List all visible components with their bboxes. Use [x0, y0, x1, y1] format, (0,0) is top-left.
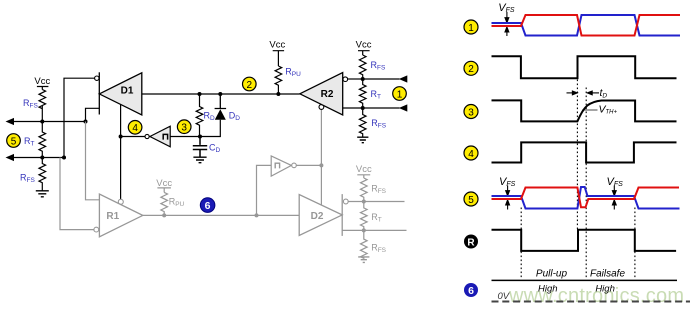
svg-text:1: 1 — [468, 23, 474, 34]
svg-text:3: 3 — [181, 123, 187, 134]
tD arrows — [567, 91, 600, 95]
node dot 4 — [119, 135, 123, 139]
resistor RFS (gray top) — [360, 178, 367, 202]
waveform row 2 circle — [464, 61, 478, 75]
waveform 6 trace — [492, 279, 678, 281]
node 6 circle (blue) — [200, 198, 215, 213]
ground (gray divider) — [358, 257, 369, 263]
svg-text:4: 4 — [132, 123, 138, 134]
node: enable junction (gray) — [319, 163, 323, 167]
node: RD branch — [198, 92, 202, 96]
node: RPU2 / line 6 — [162, 213, 166, 217]
receiver R2 — [300, 73, 343, 115]
bubble R2 input B — [343, 77, 348, 82]
dashed ground line — [492, 301, 691, 303]
wire node 2 line (R2 out to D1 in) — [142, 93, 300, 95]
waveform 2 trace — [492, 56, 677, 78]
waveform row R circle — [464, 235, 478, 249]
bubble D1 output B — [95, 76, 99, 80]
wire node4 to inverter out — [121, 136, 145, 138]
svg-text:RPU: RPU — [285, 67, 301, 79]
waveform 4 trace — [492, 142, 677, 162]
svg-text:2: 2 — [468, 64, 474, 75]
resistor RFS (right bottom) — [359, 108, 366, 137]
node: divider / bus A — [40, 120, 44, 124]
ground (left divider) — [36, 191, 49, 197]
svg-text:RFS: RFS — [371, 60, 386, 72]
ground (right divider) — [357, 137, 368, 143]
wire D2 output A to bus (gray) — [342, 229, 406, 231]
arrowhead bus B right — [399, 104, 408, 111]
wire node4 to R1 enable — [120, 137, 122, 200]
waveform row 1 circle — [464, 20, 478, 34]
svg-text:Failsafe: Failsafe — [590, 268, 625, 279]
resistor RPU2 (gray) — [161, 192, 168, 215]
VFS arrows row1 — [505, 12, 509, 36]
node: D1 output B / bus B — [62, 156, 66, 160]
VFS arrows row5 left — [506, 186, 510, 210]
waveform 5 blue trace — [492, 187, 680, 209]
svg-text:D2: D2 — [311, 211, 324, 222]
svg-text:2: 2 — [247, 80, 253, 91]
node: divider / bus B — [40, 156, 44, 160]
wire inverter in to node 3 — [170, 136, 200, 138]
Vcc symbol (right gray divider) — [356, 164, 372, 178]
diode DD — [200, 94, 226, 137]
node 3 circle — [177, 120, 191, 134]
svg-text:RT: RT — [24, 136, 35, 148]
driver D2 (gray) — [299, 195, 342, 236]
svg-text:5: 5 — [468, 195, 474, 206]
svg-text:RFS: RFS — [20, 173, 35, 185]
node: gray bus A — [362, 228, 366, 232]
wire D1 inverted output B to bus B — [64, 78, 95, 157]
svg-text:0V: 0V — [498, 291, 511, 302]
svg-text:5: 5 — [11, 136, 17, 147]
bus stub A right — [363, 78, 400, 80]
arrowhead bus A left — [6, 118, 15, 125]
ground (CD) — [193, 157, 206, 163]
wire D1 enable to node 4 — [120, 104, 122, 136]
VTH+ pointer dash — [582, 109, 598, 111]
bubble R1 enable — [118, 199, 123, 204]
wire line6 to inverter2 (gray) — [257, 165, 272, 215]
arrowhead bus B left — [6, 154, 15, 161]
dotted line C (threshold crossing) — [585, 88, 587, 279]
svg-text:6: 6 — [205, 200, 211, 212]
wire D1 output A to bus A — [86, 108, 100, 121]
wire inverter2 out to R2/D2 enables (gray) — [296, 110, 321, 206]
svg-text:R2: R2 — [321, 89, 334, 100]
svg-text:DD: DD — [229, 111, 241, 123]
wire bus B to R1 input (gray) — [60, 158, 94, 230]
Vcc symbol (right divider) — [356, 40, 372, 55]
node 5 circle — [7, 134, 21, 148]
waveform row 3 circle — [464, 105, 478, 119]
resistor RD — [196, 94, 203, 137]
node: gray bus B — [362, 200, 366, 204]
bubble R1 input B — [94, 227, 99, 232]
node 2 circle — [243, 77, 257, 91]
bubble R2 enable — [319, 105, 324, 110]
inverter U1 (delay buffer) — [145, 126, 170, 147]
dotted line A (pull-up start) — [520, 208, 522, 278]
svg-text:D1: D1 — [121, 86, 134, 97]
svg-text:Vcc: Vcc — [356, 164, 372, 175]
svg-text:High: High — [595, 283, 615, 294]
node: RPU branch — [276, 92, 280, 96]
svg-text:6: 6 — [468, 285, 474, 297]
svg-text:RT: RT — [371, 212, 382, 224]
wire bus A to R1 input (gray) — [86, 122, 100, 200]
svg-text:High: High — [538, 283, 558, 294]
waveform 5 red trace — [492, 188, 680, 208]
capacitor CD — [193, 137, 207, 157]
wire D2 output bar (gray) — [341, 194, 343, 236]
inverter U2 (gray) — [271, 156, 296, 176]
waveform 1 red trace — [492, 15, 681, 36]
wire D1 output bar — [98, 72, 100, 114]
svg-text:RPU: RPU — [169, 197, 185, 209]
svg-text:RFS: RFS — [371, 243, 386, 255]
wire node 6 line (R1 out to D2 in, gray) — [143, 214, 299, 216]
Vcc symbol (RPU) — [269, 40, 285, 66]
receiver R1 (gray) — [99, 194, 142, 237]
svg-text:Vcc: Vcc — [269, 40, 285, 51]
dotted line D (failsafe end) — [634, 208, 636, 278]
svg-text:R: R — [467, 237, 475, 248]
node: bus B right — [361, 106, 365, 110]
waveform row 5 circle — [464, 192, 478, 206]
svg-text:tD: tD — [600, 87, 608, 100]
wire R2 input B to bus — [348, 78, 363, 80]
node: DD branch — [218, 92, 222, 96]
node dot 3 — [198, 135, 202, 139]
VFS arrows row5 right — [612, 186, 616, 210]
svg-text:RFS: RFS — [371, 118, 386, 130]
svg-text:1: 1 — [397, 89, 403, 100]
svg-text:VTH+: VTH+ — [599, 104, 618, 116]
resistor RT (gray) — [360, 202, 367, 231]
Vcc symbol left (failsafe divider) — [34, 76, 50, 90]
bubble D2 output B (gray) — [343, 199, 348, 204]
svg-text:3: 3 — [468, 107, 474, 118]
svg-text:Vcc: Vcc — [34, 76, 50, 87]
bus line A (left, to cable) — [12, 121, 87, 123]
svg-text:RFS: RFS — [371, 184, 386, 196]
wire R2 input A to bus — [343, 107, 363, 109]
svg-text:RFS: RFS — [23, 98, 38, 110]
waveform row 4 circle — [464, 146, 478, 160]
resistor RFS (left top) — [39, 90, 46, 109]
svg-text:RT: RT — [371, 89, 382, 101]
bus line B (left, to cable) — [12, 157, 66, 159]
waveform 1 blue trace — [492, 15, 681, 36]
driver D1 — [99, 73, 142, 115]
resistor RT (right) — [359, 79, 366, 108]
waveform 3 trace (RC rise) — [492, 100, 677, 121]
wire RFS to bus A — [41, 106, 43, 122]
resistor RT (left) — [39, 122, 46, 158]
resistor RFS (left bottom) — [39, 158, 46, 191]
svg-text:R1: R1 — [106, 211, 119, 222]
Vcc symbol (RPU2 gray) — [156, 178, 172, 192]
arrowhead bus A right — [399, 75, 408, 82]
bus stub B right — [363, 107, 400, 109]
resistor RFS (gray bottom) — [360, 230, 367, 258]
waveform R trace — [492, 230, 677, 251]
svg-text:4: 4 — [468, 149, 474, 160]
svg-text:Pull-up: Pull-up — [536, 269, 568, 280]
node 1 circle — [393, 87, 407, 101]
svg-text:Vcc: Vcc — [356, 40, 372, 51]
resistor RPU — [275, 66, 282, 94]
node: inverter2 branch — [255, 213, 259, 217]
dotted line B (bus release) — [576, 80, 578, 230]
waveform row 6 circle (blue) — [464, 283, 478, 297]
node: D1 output A / bus A — [84, 120, 88, 124]
node 4 circle — [128, 121, 142, 135]
svg-text:CD: CD — [209, 143, 221, 155]
resistor RFS (right top) — [359, 55, 366, 79]
svg-text:RD: RD — [204, 111, 216, 123]
wire D2 output B to bus (gray) — [348, 201, 404, 203]
node: bus A right — [361, 77, 365, 81]
